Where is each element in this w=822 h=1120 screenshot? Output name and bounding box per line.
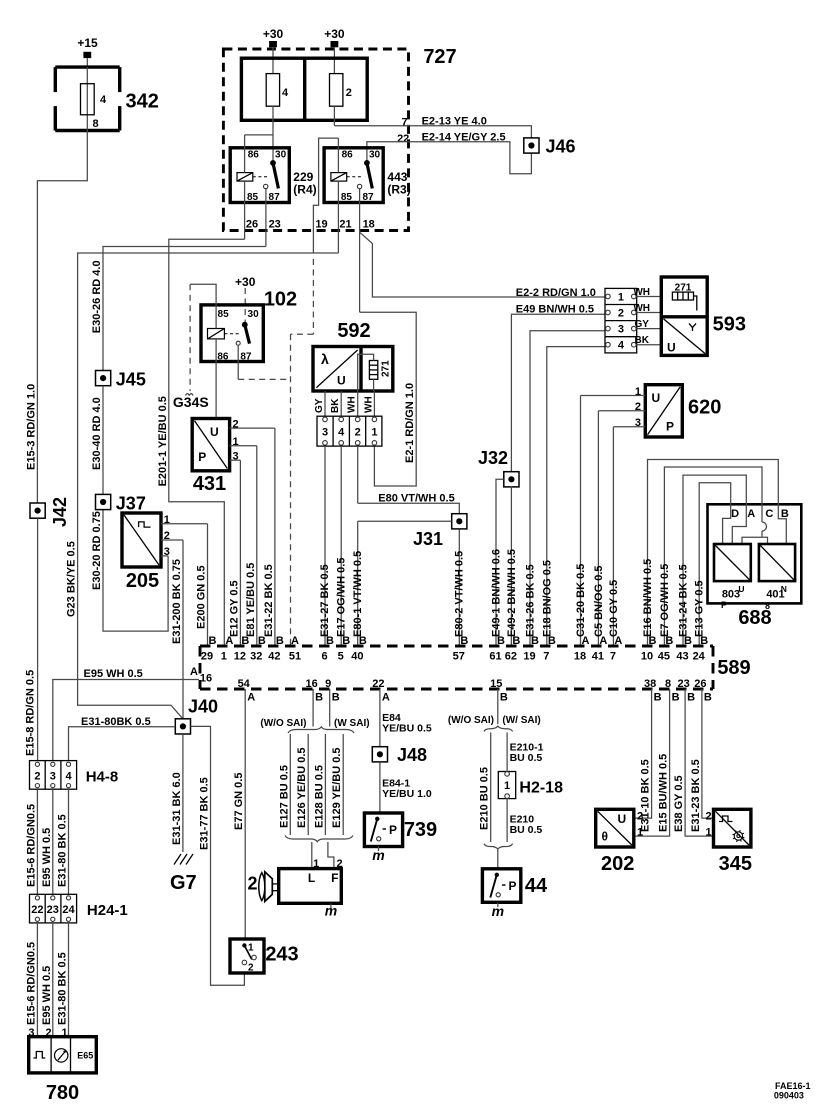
svg-text:E30-40 RD 4.0: E30-40 RD 4.0 <box>91 397 103 470</box>
svg-text:23: 23 <box>47 904 59 916</box>
svg-text:BU 0.5: BU 0.5 <box>510 752 543 764</box>
svg-text:E126 YE/BU 0.5: E126 YE/BU 0.5 <box>296 747 308 828</box>
svg-text:E15-3 RD/GN 1.0: E15-3 RD/GN 1.0 <box>25 384 37 470</box>
svg-text:739: 739 <box>404 819 437 841</box>
svg-text:E15-8 RD/GN 0.5: E15-8 RD/GN 0.5 <box>25 670 37 756</box>
svg-text:593: 593 <box>713 314 746 336</box>
svg-text:7: 7 <box>402 117 408 129</box>
svg-text:243: 243 <box>265 944 298 966</box>
svg-text:61: 61 <box>489 651 501 663</box>
svg-text:WH: WH <box>347 396 358 413</box>
svg-text:E80-2 VT/WH 0.5: E80-2 VT/WH 0.5 <box>454 551 466 637</box>
svg-text:B: B <box>276 635 284 647</box>
svg-text:U: U <box>618 812 627 826</box>
svg-text:A: A <box>225 635 233 647</box>
svg-text:C31-20 BK 0.5: C31-20 BK 0.5 <box>575 564 587 637</box>
svg-text:B: B <box>684 635 692 647</box>
svg-text:A: A <box>582 635 590 647</box>
svg-text:1: 1 <box>618 292 624 304</box>
svg-text:271: 271 <box>381 360 392 377</box>
svg-text:B: B <box>497 635 505 647</box>
svg-text:A: A <box>382 692 390 704</box>
svg-text:4: 4 <box>100 94 107 106</box>
svg-text:B: B <box>258 635 266 647</box>
svg-text:803: 803 <box>722 588 740 600</box>
svg-text:B: B <box>315 692 323 704</box>
svg-text:L: L <box>308 871 315 885</box>
svg-text:J48: J48 <box>397 745 427 765</box>
svg-text:E65: E65 <box>77 1051 93 1061</box>
svg-text:B: B <box>531 635 539 647</box>
svg-text:J32: J32 <box>478 448 508 468</box>
svg-text:E13 GY 0.5: E13 GY 0.5 <box>694 580 706 637</box>
svg-text:2: 2 <box>618 308 624 320</box>
svg-text:J46: J46 <box>546 137 576 157</box>
svg-text:727: 727 <box>423 46 456 68</box>
svg-text:E31-80 BK 0.5: E31-80 BK 0.5 <box>57 952 69 1025</box>
svg-text:9: 9 <box>325 678 331 690</box>
svg-text:4: 4 <box>618 340 625 352</box>
svg-text:B: B <box>649 635 657 647</box>
svg-text:BU 0.5: BU 0.5 <box>510 824 543 836</box>
svg-text:A: A <box>291 635 299 647</box>
svg-text:2: 2 <box>637 811 643 823</box>
svg-text:30: 30 <box>275 149 287 160</box>
svg-text:A: A <box>190 666 198 678</box>
svg-text:E31-200 BK 0.75: E31-200 BK 0.75 <box>171 559 183 644</box>
svg-text:4: 4 <box>65 771 72 783</box>
svg-text:+30: +30 <box>324 27 345 41</box>
svg-text:BK: BK <box>634 335 649 346</box>
svg-text:86: 86 <box>342 149 354 160</box>
svg-text:2: 2 <box>34 771 40 783</box>
svg-text:U: U <box>337 374 346 388</box>
svg-text:B: B <box>460 635 468 647</box>
svg-text:E2-1 RD/GN 1.0: E2-1 RD/GN 1.0 <box>404 383 416 463</box>
svg-text:86: 86 <box>248 149 260 160</box>
svg-text:B: B <box>687 692 695 704</box>
svg-text:FAE16-1: FAE16-1 <box>775 1081 811 1091</box>
svg-text:E31-22 BK 0.5: E31-22 BK 0.5 <box>263 564 275 637</box>
svg-text:26: 26 <box>694 678 706 690</box>
svg-text:YE/BU 1.0: YE/BU 1.0 <box>382 788 432 800</box>
svg-text:B: B <box>672 692 680 704</box>
svg-text:22: 22 <box>372 678 384 690</box>
svg-text:7: 7 <box>543 651 549 663</box>
svg-text:10: 10 <box>641 651 653 663</box>
svg-text:U: U <box>738 584 744 594</box>
svg-text:E95 WH 0.5: E95 WH 0.5 <box>41 828 53 887</box>
svg-text:(W SAI): (W SAI) <box>334 718 370 729</box>
svg-text:(W/ SAI): (W/ SAI) <box>502 715 540 726</box>
svg-text:A: A <box>247 692 255 704</box>
svg-text:30: 30 <box>248 309 260 320</box>
svg-text:E30-20 RD 0.75: E30-20 RD 0.75 <box>91 511 103 590</box>
svg-text:15: 15 <box>490 678 502 690</box>
svg-text:H4-8: H4-8 <box>86 768 119 785</box>
svg-text:G7: G7 <box>170 872 197 894</box>
svg-text:24: 24 <box>693 651 706 663</box>
svg-text:H24-1: H24-1 <box>87 902 128 919</box>
svg-text:P: P <box>666 420 674 434</box>
svg-text:E210 BU 0.5: E210 BU 0.5 <box>479 767 491 830</box>
svg-text:22: 22 <box>31 904 43 916</box>
svg-text:U: U <box>210 425 219 439</box>
svg-text:E15-6 RD/GN0.5: E15-6 RD/GN0.5 <box>25 804 37 887</box>
svg-text:m: m <box>492 903 504 919</box>
svg-text:J37: J37 <box>116 493 146 513</box>
svg-text:2: 2 <box>248 963 254 974</box>
svg-text:C: C <box>765 508 773 520</box>
svg-text:B: B <box>332 692 340 704</box>
svg-text:2: 2 <box>346 87 352 99</box>
svg-text:C5 BN/OG 0.5: C5 BN/OG 0.5 <box>593 565 605 637</box>
svg-text:B: B <box>548 635 556 647</box>
svg-text:+15: +15 <box>77 36 98 50</box>
svg-text:WH: WH <box>633 303 650 314</box>
svg-text:J42: J42 <box>50 497 70 527</box>
svg-text:30: 30 <box>369 149 381 160</box>
svg-text:E80-1 VT/WH 0.5: E80-1 VT/WH 0.5 <box>352 551 364 637</box>
svg-text:E31-23 BK 0.5: E31-23 BK 0.5 <box>690 759 702 832</box>
svg-text:23: 23 <box>677 678 689 690</box>
svg-text:1: 1 <box>637 826 643 838</box>
svg-text:E7 OG/WH 0.5: E7 OG/WH 0.5 <box>659 564 671 637</box>
svg-text:780: 780 <box>46 1082 79 1104</box>
svg-text:2: 2 <box>247 874 257 894</box>
svg-text:E200 GN 0.5: E200 GN 0.5 <box>196 565 208 629</box>
svg-text:86: 86 <box>217 351 229 362</box>
svg-text:m: m <box>372 847 384 863</box>
svg-text:22: 22 <box>397 133 409 145</box>
svg-text:E15 BU/WH 0.5: E15 BU/WH 0.5 <box>658 754 670 832</box>
svg-text:29: 29 <box>201 651 213 663</box>
svg-text:E17 OG/WH 0.5: E17 OG/WH 0.5 <box>336 558 348 637</box>
svg-text:WH: WH <box>633 287 650 298</box>
svg-text:E129 YE/BU 0.5: E129 YE/BU 0.5 <box>331 747 343 828</box>
svg-text:E2-13 YE 4.0: E2-13 YE 4.0 <box>422 116 487 128</box>
svg-text:B: B <box>704 692 712 704</box>
svg-text:16: 16 <box>200 673 212 685</box>
svg-text:6: 6 <box>321 651 327 663</box>
svg-text:E38 GY 0.5: E38 GY 0.5 <box>673 775 685 832</box>
svg-text:(W/O SAI): (W/O SAI) <box>448 715 494 726</box>
svg-text:85: 85 <box>341 192 353 203</box>
svg-text:(R3): (R3) <box>387 182 410 196</box>
svg-text:+30: +30 <box>263 27 284 41</box>
svg-text:E201-1 YE/BU 0.5: E201-1 YE/BU 0.5 <box>157 396 169 486</box>
svg-text:B: B <box>700 635 708 647</box>
svg-text:620: 620 <box>688 397 721 419</box>
svg-text:(W/O SAI): (W/O SAI) <box>260 718 306 729</box>
svg-text:B: B <box>241 635 249 647</box>
svg-text:P: P <box>721 600 727 610</box>
svg-text:B: B <box>342 635 350 647</box>
svg-text:87: 87 <box>269 192 281 203</box>
svg-text:B: B <box>654 692 662 704</box>
svg-text:19: 19 <box>523 651 535 663</box>
svg-text:3: 3 <box>50 771 56 783</box>
svg-text:E49 BN/WH 0.5: E49 BN/WH 0.5 <box>516 303 594 315</box>
svg-text:090403: 090403 <box>774 1091 804 1101</box>
svg-text:38: 38 <box>644 678 656 690</box>
svg-text:87: 87 <box>240 351 252 362</box>
svg-text:589: 589 <box>717 657 750 679</box>
svg-text:E18 BN/OG 0.5: E18 BN/OG 0.5 <box>541 560 553 637</box>
svg-text:592: 592 <box>337 320 370 342</box>
svg-text:(R4): (R4) <box>293 182 316 196</box>
svg-text:D: D <box>731 508 739 520</box>
svg-text:BK: BK <box>330 398 341 413</box>
svg-text:E30-26 RD 4.0: E30-26 RD 4.0 <box>91 260 103 333</box>
svg-text:5: 5 <box>338 651 344 663</box>
svg-text:B: B <box>500 692 508 704</box>
svg-text:WH: WH <box>363 396 374 413</box>
svg-text:18: 18 <box>574 651 586 663</box>
svg-text:θ: θ <box>602 830 609 844</box>
svg-text:7: 7 <box>610 651 616 663</box>
svg-text:E127 BU 0.5: E127 BU 0.5 <box>278 765 290 828</box>
svg-text:8: 8 <box>665 678 671 690</box>
svg-text:E12 GY 0.5: E12 GY 0.5 <box>228 580 240 637</box>
svg-text:J40: J40 <box>188 697 218 717</box>
svg-text:E31-80BK 0.5: E31-80BK 0.5 <box>81 716 151 728</box>
svg-text:431: 431 <box>193 473 226 495</box>
svg-text:2: 2 <box>706 811 712 823</box>
svg-text:B: B <box>512 635 520 647</box>
svg-text:41: 41 <box>592 651 604 663</box>
svg-text:+30: +30 <box>235 275 256 289</box>
svg-text:1: 1 <box>248 943 254 954</box>
svg-text:E31-26 BK 0.5: E31-26 BK 0.5 <box>525 564 537 637</box>
svg-text:G34S: G34S <box>173 394 209 410</box>
svg-text:B: B <box>209 635 217 647</box>
svg-text:E31-24 BK 0.5: E31-24 BK 0.5 <box>678 564 690 637</box>
svg-text:4: 4 <box>282 87 289 99</box>
svg-text:18: 18 <box>363 219 375 231</box>
svg-text:8: 8 <box>93 118 99 130</box>
svg-text:4: 4 <box>338 427 345 439</box>
svg-text:E31-27 BK 0.5: E31-27 BK 0.5 <box>319 564 331 637</box>
svg-text:E15-6 RD/GN0.5: E15-6 RD/GN0.5 <box>25 942 37 1025</box>
svg-text:E95 WH 0.5: E95 WH 0.5 <box>41 966 53 1025</box>
svg-text:45: 45 <box>658 651 670 663</box>
svg-text:J45: J45 <box>116 369 146 389</box>
svg-text:J31: J31 <box>413 529 443 549</box>
svg-text:202: 202 <box>601 853 634 875</box>
svg-text:16: 16 <box>305 678 317 690</box>
svg-text:21: 21 <box>339 219 351 231</box>
svg-text:205: 205 <box>126 570 159 592</box>
svg-text:GY: GY <box>634 319 649 330</box>
svg-text:23: 23 <box>269 219 281 231</box>
svg-text:E49-1 BN/WH 0.6: E49-1 BN/WH 0.6 <box>491 549 503 637</box>
svg-text:GY: GY <box>314 398 325 413</box>
svg-text:B: B <box>359 635 367 647</box>
svg-text:32: 32 <box>250 651 262 663</box>
svg-text:42: 42 <box>268 651 280 663</box>
svg-text:E2-2 RD/GN 1.0: E2-2 RD/GN 1.0 <box>516 287 596 299</box>
svg-text:F: F <box>331 871 338 885</box>
svg-text:m: m <box>325 903 337 919</box>
svg-text:87: 87 <box>362 192 374 203</box>
svg-text:12: 12 <box>234 651 246 663</box>
svg-text:E81 YE/BU 0.5: E81 YE/BU 0.5 <box>245 563 257 637</box>
svg-text:A: A <box>614 635 622 647</box>
svg-text:2: 2 <box>355 427 361 439</box>
svg-text:1: 1 <box>371 427 377 439</box>
svg-text:YE/BU 0.5: YE/BU 0.5 <box>382 723 432 735</box>
svg-text:345: 345 <box>719 853 752 875</box>
svg-text:A: A <box>599 635 607 647</box>
svg-text:P: P <box>509 879 517 893</box>
svg-text:342: 342 <box>126 91 159 113</box>
svg-text:24: 24 <box>62 904 75 916</box>
svg-text:E16 BN/WH 0.5: E16 BN/WH 0.5 <box>642 559 654 637</box>
svg-text:B: B <box>326 635 334 647</box>
svg-text:E80 VT/WH 0.5: E80 VT/WH 0.5 <box>378 492 454 504</box>
svg-text:E31-77 BK 0.5: E31-77 BK 0.5 <box>199 777 211 850</box>
svg-text:40: 40 <box>351 651 363 663</box>
svg-text:H2-18: H2-18 <box>519 779 563 796</box>
svg-text:3: 3 <box>618 324 624 336</box>
svg-text:U: U <box>667 341 676 355</box>
svg-text:1: 1 <box>504 780 510 792</box>
svg-text:P: P <box>198 450 206 464</box>
svg-text:E31-31 BK 6.0: E31-31 BK 6.0 <box>171 772 183 845</box>
svg-text:E128 BU 0.5: E128 BU 0.5 <box>313 765 325 828</box>
svg-text:P: P <box>389 823 397 837</box>
svg-text:57: 57 <box>453 651 465 663</box>
svg-text:C10 GY 0.5: C10 GY 0.5 <box>608 580 620 637</box>
svg-text:N: N <box>781 584 787 594</box>
svg-text:E49-2 BN/WH 0.5: E49-2 BN/WH 0.5 <box>506 549 518 637</box>
svg-text:26: 26 <box>246 219 258 231</box>
svg-text:B: B <box>665 635 673 647</box>
svg-text:E31-80 BK 0.5: E31-80 BK 0.5 <box>57 814 69 887</box>
svg-text:85: 85 <box>247 192 259 203</box>
svg-text:1: 1 <box>706 826 712 838</box>
svg-text:E77 GN 0.5: E77 GN 0.5 <box>233 773 245 830</box>
svg-text:54: 54 <box>238 678 251 690</box>
svg-text:688: 688 <box>738 607 771 629</box>
svg-text:3: 3 <box>322 427 328 439</box>
svg-text:A: A <box>747 508 755 520</box>
svg-text:G23 BK/YE 0.5: G23 BK/YE 0.5 <box>66 541 78 617</box>
svg-text:19: 19 <box>315 219 327 231</box>
svg-text:85: 85 <box>218 309 230 320</box>
svg-text:43: 43 <box>676 651 688 663</box>
svg-text:U: U <box>652 391 661 405</box>
svg-text:E95 WH 0.5: E95 WH 0.5 <box>84 668 143 680</box>
svg-text:1: 1 <box>221 651 227 663</box>
svg-text:102: 102 <box>264 289 297 311</box>
svg-text:λ: λ <box>321 351 329 367</box>
svg-text:51: 51 <box>289 651 301 663</box>
svg-text:62: 62 <box>505 651 517 663</box>
svg-text:44: 44 <box>525 875 548 897</box>
